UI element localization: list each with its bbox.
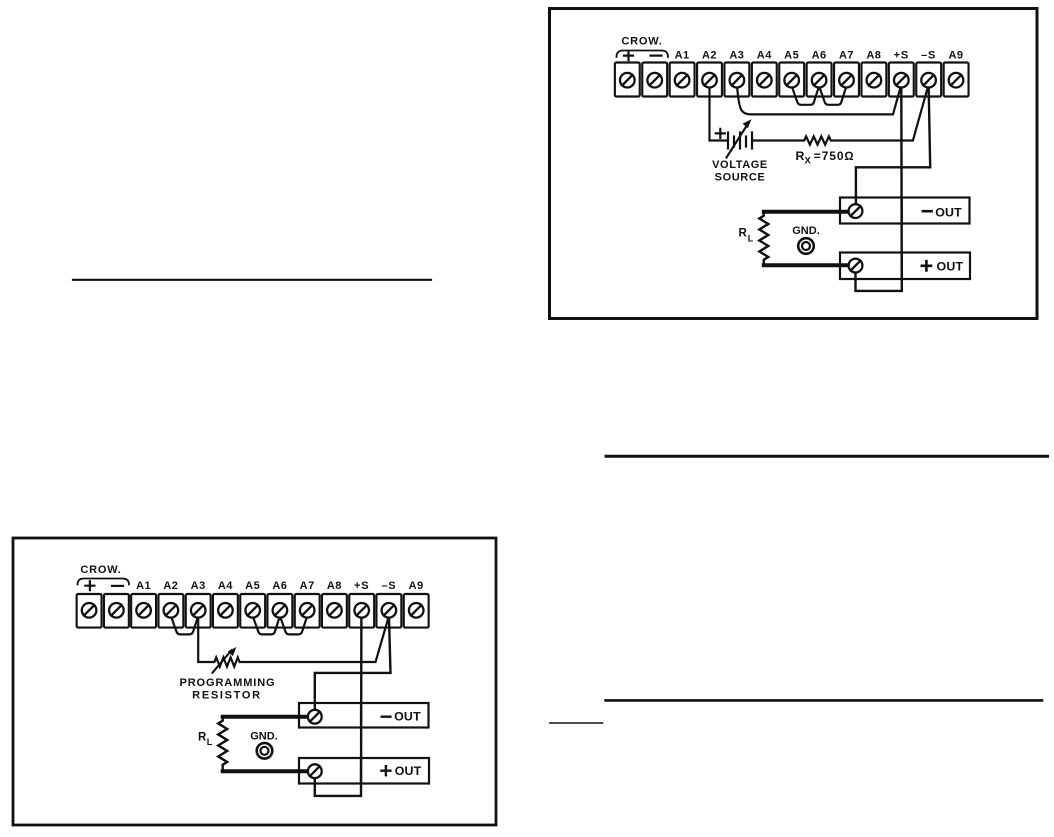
OUT terminal block +OUT (top diagram)	[840, 253, 970, 280]
screw terminal A7 (bottom diagram)	[300, 603, 315, 618]
svg-text:A3: A3	[729, 50, 744, 62]
svg-text:A5: A5	[784, 50, 799, 62]
svg-text:L: L	[748, 233, 754, 243]
label -OUT (bottom diagram)	[382, 716, 391, 718]
label - (top diagram)	[651, 54, 662, 56]
screw terminal A2 (bottom diagram)	[164, 603, 179, 618]
wire -S to -OUT screw (bottom diagram)	[315, 614, 391, 717]
svg-text:A4: A4	[218, 580, 233, 592]
svg-text:A9: A9	[948, 50, 963, 62]
jumper A2-A3 (bottom diagram)	[171, 616, 198, 634]
programming resistor variable arrow (bottom diagram)	[213, 650, 232, 673]
svg-text:–S: –S	[921, 50, 936, 62]
svg-text:A7: A7	[839, 50, 854, 62]
screw terminal A2 (top diagram)	[702, 73, 717, 88]
screw terminal +S (top diagram)	[894, 73, 909, 88]
screw terminal +OUT (bottom diagram)	[308, 764, 322, 778]
rule line right lower	[606, 699, 1042, 702]
OUT terminal block -OUT (bottom diagram)	[299, 703, 429, 728]
battery variable arrow (top diagram)	[727, 126, 747, 158]
jumper A5-A6 (bottom diagram)	[253, 616, 280, 634]
screw terminal +S (bottom diagram)	[354, 603, 369, 618]
wire +S down and around to +OUT screw (top diagram)	[856, 84, 902, 291]
screw terminal - (top diagram)	[647, 73, 662, 88]
rule line left	[73, 279, 431, 281]
screw terminal + (top diagram)	[620, 73, 963, 88]
svg-text:+S: +S	[894, 50, 909, 62]
jumper A6-A7 (bottom diagram)	[280, 616, 307, 634]
svg-text:OUT: OUT	[935, 205, 962, 219]
wire A3 through programming resistor to -S (bottom diagram)	[198, 614, 389, 667]
wire +S down and around to +OUT screw (bottom diagram)	[315, 614, 362, 796]
svg-text:OUT: OUT	[937, 259, 964, 273]
svg-text:A6: A6	[272, 580, 287, 592]
screw terminal +OUT (top diagram)	[849, 259, 863, 273]
jumper A6-A7 (top diagram)	[819, 86, 846, 105]
svg-text:R: R	[198, 732, 207, 744]
screw terminal -OUT (top diagram)	[849, 204, 863, 272]
OUT terminal block -OUT (top diagram)	[840, 198, 970, 224]
screw terminal A1 (bottom diagram)	[136, 603, 151, 618]
svg-text:A8: A8	[866, 50, 881, 62]
screw terminal A5 (bottom diagram)	[245, 603, 260, 618]
screw terminal A9 (top diagram)	[949, 73, 964, 88]
svg-text:L: L	[207, 737, 213, 747]
svg-text:A5: A5	[245, 580, 260, 592]
screw terminal A4 (bottom diagram)	[218, 603, 233, 618]
label + (top diagram)	[624, 51, 633, 60]
label + (bottom diagram)	[85, 581, 94, 590]
screw terminal A7 (top diagram)	[839, 73, 854, 88]
screw terminal -S (bottom diagram)	[382, 603, 397, 618]
svg-text:RESISTOR: RESISTOR	[192, 689, 262, 701]
svg-text:A1: A1	[136, 580, 151, 592]
svg-text:A1: A1	[675, 50, 690, 62]
label +OUT (top diagram)	[922, 261, 931, 270]
svg-text:A6: A6	[812, 50, 827, 62]
svg-text:VOLTAGE: VOLTAGE	[712, 159, 768, 171]
screw terminal A1 (top diagram)	[675, 73, 690, 88]
load resistor RL (top diagram)	[764, 210, 849, 214]
rule line right upper	[606, 455, 1048, 458]
svg-text:=750Ω: =750Ω	[814, 149, 855, 163]
screw terminal A8 (top diagram)	[867, 73, 882, 88]
load resistor RL (bottom diagram)	[223, 715, 309, 719]
svg-text:–S: –S	[381, 580, 396, 592]
ground GND symbol (top diagram)	[798, 238, 814, 254]
wire A2 to voltage source (top diagram)	[710, 84, 728, 141]
screw terminal A6 (bottom diagram)	[273, 603, 288, 618]
screw terminal -OUT (bottom diagram)	[308, 710, 322, 778]
screw terminal A3 (bottom diagram)	[191, 603, 206, 618]
svg-text:X: X	[805, 156, 812, 167]
svg-text:CROW.: CROW.	[80, 564, 121, 576]
svg-text:A7: A7	[300, 580, 315, 592]
svg-text:A3: A3	[191, 580, 206, 592]
wire A3 to +S sense line (top diagram)	[737, 84, 901, 114]
OUT terminal block +OUT (bottom diagram)	[299, 758, 429, 784]
svg-text:GND.: GND.	[250, 731, 278, 743]
svg-text:A9: A9	[409, 580, 424, 592]
svg-text:R: R	[739, 227, 748, 239]
svg-text:+S: +S	[354, 580, 369, 592]
screw terminal -S (top diagram)	[921, 73, 936, 88]
screw terminal + (bottom diagram)	[82, 603, 424, 618]
svg-text:A4: A4	[757, 50, 772, 62]
CROW bracket (top diagram)	[617, 51, 669, 58]
svg-text:OUT: OUT	[395, 764, 422, 778]
terminal strip cells (bottom diagram)	[77, 594, 429, 628]
svg-text:SOURCE: SOURCE	[715, 172, 766, 184]
label - (bottom diagram)	[112, 585, 123, 587]
svg-text:A8: A8	[327, 580, 342, 592]
screw terminal A6 (top diagram)	[812, 73, 827, 88]
wire battery to resistor RX to -S (top diagram)	[753, 85, 929, 145]
svg-text:A2: A2	[163, 580, 178, 592]
svg-text:CROW.: CROW.	[621, 36, 662, 48]
screw terminal A3 (top diagram)	[730, 73, 745, 88]
svg-text:R: R	[796, 149, 805, 163]
label -OUT (top diagram)	[923, 210, 932, 213]
ground GND symbol (bottom diagram)	[257, 743, 273, 759]
battery B1 voltage source plates (top diagram)	[728, 133, 752, 149]
screw terminal A8 (bottom diagram)	[327, 603, 342, 618]
screw terminal - (bottom diagram)	[109, 603, 124, 618]
CROW bracket (bottom diagram)	[78, 579, 130, 585]
screw terminal A5 (top diagram)	[784, 73, 799, 88]
rule line short left	[550, 722, 603, 724]
svg-text:GND.: GND.	[792, 225, 820, 237]
jumper A5-A6 (top diagram)	[792, 86, 819, 105]
svg-text:A2: A2	[702, 50, 717, 62]
battery + polarity sign (top diagram)	[716, 129, 725, 138]
wire -S to -OUT screw (top diagram)	[856, 84, 930, 211]
svg-text:OUT: OUT	[394, 710, 421, 724]
screw terminal A4 (top diagram)	[757, 73, 772, 88]
svg-text:PROGRAMMING: PROGRAMMING	[179, 677, 275, 689]
label +OUT (bottom diagram)	[381, 766, 390, 775]
screw terminal A9 (bottom diagram)	[409, 603, 424, 618]
terminal strip cells (top diagram)	[615, 63, 969, 97]
